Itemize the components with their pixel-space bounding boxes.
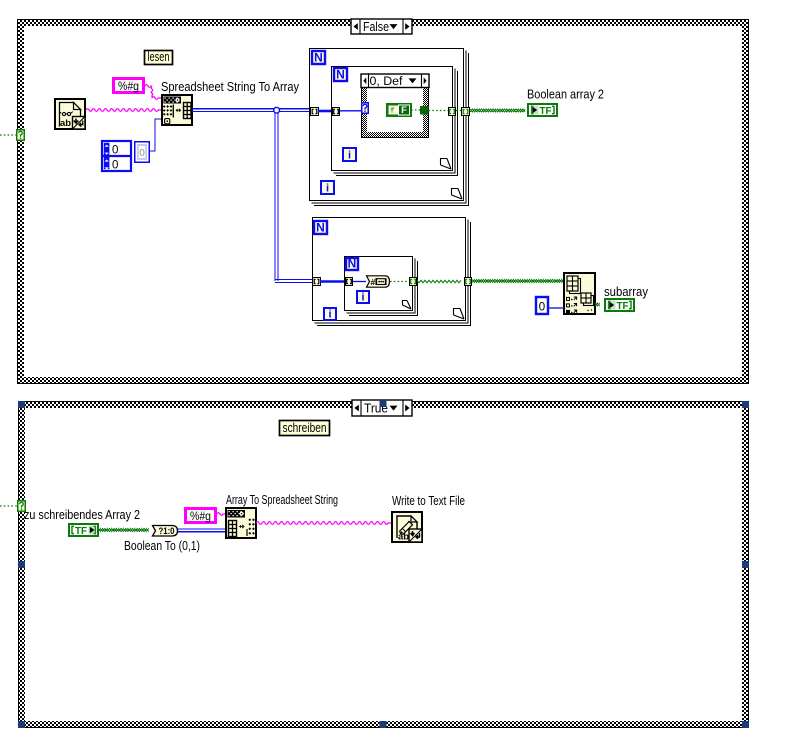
svg-text:i: i [361,291,364,303]
svg-text:Write to Text File: Write to Text File [392,493,465,508]
svg-text:TF: TF [617,301,629,312]
iteration terminal i (loop2 outer) [324,308,336,320]
node Spreadsheet String To Array [162,95,192,125]
wire 2D int array to Array To Spreadsheet String [178,528,226,530]
string constant %#g (top) [114,79,144,94]
node Write to Text File icon [392,512,422,543]
wire boolean dotted across inner loop [429,110,449,112]
count terminal N (loop1 outer) [312,51,325,65]
case structure 0,Def [361,74,429,138]
wire string %#g to node [217,513,226,516]
svg-text:Boolean array 2: Boolean array 2 [527,87,604,102]
indicator subarray [605,299,634,312]
selection handles [18,400,749,728]
svg-text:schreiben: schreiben [283,420,327,435]
label schreiben [280,420,330,436]
svg-text:zu schreibendes Array 2: zu schreibendes Array 2 [24,507,140,522]
count terminal N (loop1 inner) [334,68,347,82]
case selector label True [352,400,412,416]
svg-text:False: False [363,20,389,34]
case selector label 0, Def [361,74,429,88]
for loop 2 inner frame [345,257,418,316]
selector terminal ? on True frame [18,501,26,512]
svg-text:lesen: lesen [148,49,170,64]
wire 1D blue into inner loop2 [320,280,346,283]
boolean constant False [387,104,411,116]
wire from empty array constant to node [150,119,161,151]
svg-text:%#g: %#g [118,79,139,93]
wire boolean array to indicator [470,109,525,112]
numeric array constant 0,0 [102,141,131,172]
selector terminal ? (inner case) [362,103,369,114]
wire string from %#g to node [145,85,152,88]
tunnel out (loop2 inner) green [410,278,417,286]
output tunnel solid green (case) [420,106,429,115]
count terminal N (loop2 inner) [346,257,358,271]
svg-text:#: # [371,277,376,287]
svg-text:0: 0 [112,145,118,157]
svg-text:?1:0: ?1:0 [159,526,175,536]
wire green dotted into selector terminal [0,134,16,136]
label lesen [145,49,173,65]
node Boolean Array To Number #[...] [367,276,390,287]
svg-text:F: F [401,105,407,116]
svg-text:N: N [348,257,357,271]
svg-text:Array To Spreadsheet String: Array To Spreadsheet String [226,492,338,507]
for loop 2 outer frame [313,218,471,326]
svg-text:0: 0 [112,160,118,172]
tunnel out (loop2 outer) green [465,278,472,286]
svg-text:ab: ab [60,118,71,129]
svg-text:N: N [314,51,323,65]
tunnel in (loop2 outer) [313,278,321,286]
control zu schreibendes Array 2 [TF] [69,524,98,537]
wire boolean dotted to tunnel [411,109,420,111]
Read from Text File icon [55,99,85,129]
wire 2D array from node to loops [192,108,310,110]
string constant %#g (bottom) [186,509,216,524]
svg-text:N: N [316,221,325,235]
wire boolean dotted between loops [456,110,461,112]
wire blue 0 to Index Array [548,307,564,309]
svg-text:N: N [336,68,345,82]
wire scalar blue to node [353,281,366,283]
svg-text:0, Def: 0, Def [370,76,404,88]
wire 1D blue between tunnels [318,110,334,113]
tunnel out (loop1 outer) green [462,108,470,116]
node Index Array [564,273,595,314]
case selector label False [351,19,412,34]
iteration terminal i (loop1 inner) [343,148,356,161]
wire scalar blue to case selector [340,110,362,112]
svg-text:i: i [328,308,331,320]
svg-text:0: 0 [539,302,545,314]
for loop 1 inner frame [332,67,458,176]
svg-text:TF: TF [75,526,87,537]
selector terminal ? on False frame [17,130,25,141]
tunnel in (loop1 outer) [311,108,319,116]
tunnel in (loop2 inner) [346,278,353,286]
case structure False frame border [17,19,749,384]
case structure True frame border [18,401,749,728]
svg-text:ab: ab [398,532,409,543]
tunnel in (loop1 inner) [333,108,340,116]
svg-text:i: i [326,182,329,194]
svg-text:i: i [348,149,351,161]
wire boolean 2D array to Index Array [472,280,564,283]
indicator Boolean array 2 [528,104,557,117]
empty array constant framed 0 [135,142,150,163]
iteration terminal i (loop2 inner) [357,291,369,303]
tunnel out (loop1 inner) green [449,108,456,116]
node Array To Spreadsheet String [226,508,256,538]
count terminal N (loop2 outer) [314,221,327,235]
wire green dotted into selector terminal (True) [0,505,17,507]
svg-text:Boolean To (0,1): Boolean To (0,1) [124,538,200,553]
iteration terminal i (loop1 outer) [321,181,334,194]
wire boolean 1D zigzag between loops [417,280,461,283]
for loop 1 outer frame [310,49,469,206]
svg-text:0: 0 [139,148,145,159]
wire string from file icon to node [86,109,161,112]
wire boolean dotted to inner tunnel [390,281,409,283]
svg-text:subarray: subarray [604,284,648,299]
wire boolean array to Boolean To (0,1) [98,529,149,532]
numeric constant 0 [536,297,548,314]
svg-text:TF: TF [540,106,552,117]
svg-text:Spreadsheet String To Array: Spreadsheet String To Array [161,79,299,94]
svg-text:%#g: %#g [190,509,211,523]
node Boolean To (0,1) [153,526,178,537]
wire string to Write to Text File [256,522,391,525]
wire boolean array to subarray [595,303,600,306]
